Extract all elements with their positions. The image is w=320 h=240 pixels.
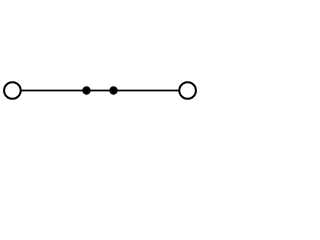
wire bbox=[21, 90, 180, 92]
terminal circle right bbox=[179, 82, 196, 99]
terminal circle left bbox=[4, 82, 21, 99]
node A junction dot bbox=[82, 86, 90, 94]
node B junction dot bbox=[109, 86, 117, 94]
